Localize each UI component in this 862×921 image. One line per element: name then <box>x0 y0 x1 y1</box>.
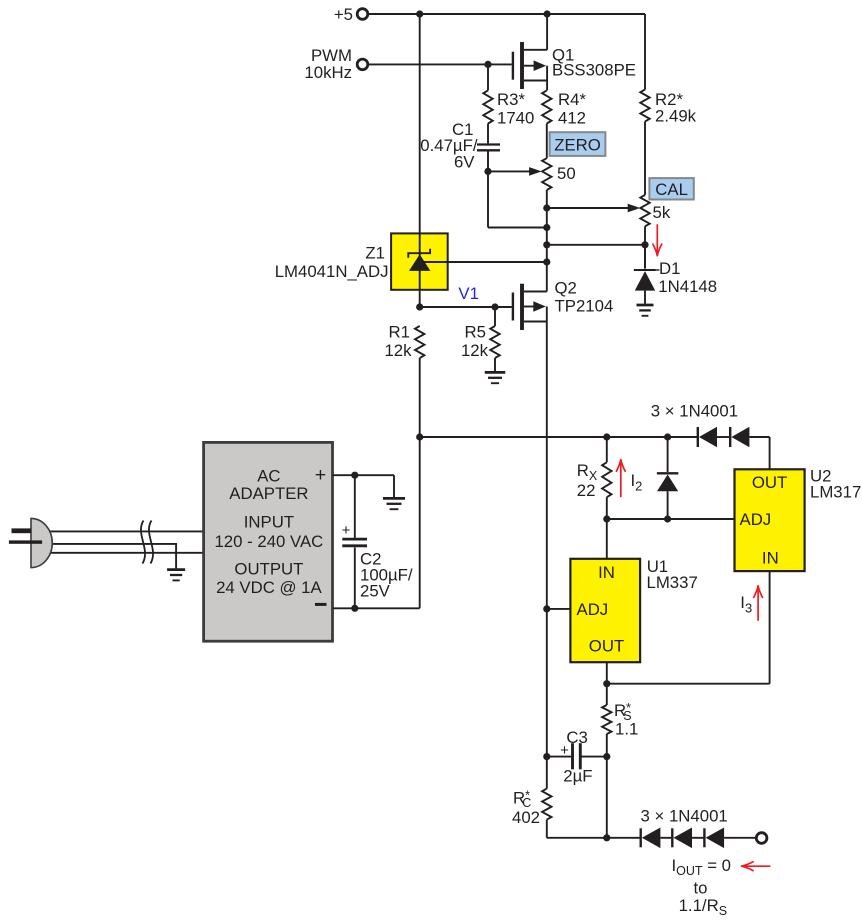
svg-text:TP2104: TP2104 <box>555 297 614 316</box>
svg-text:C3: C3 <box>566 728 587 747</box>
svg-text:I2: I2 <box>631 471 643 494</box>
svg-text:25V: 25V <box>360 581 391 600</box>
svg-text:ZERO: ZERO <box>554 136 601 155</box>
svg-text:IOUT = 0: IOUT = 0 <box>672 856 732 878</box>
svg-text:+5: +5 <box>334 5 353 24</box>
svg-text:+: + <box>560 742 569 759</box>
svg-text:ADJ: ADJ <box>740 510 772 529</box>
svg-text:402: 402 <box>512 808 540 827</box>
svg-text:R4*: R4* <box>558 90 586 109</box>
svg-text:I3: I3 <box>740 593 752 616</box>
svg-text:120 - 240 VAC: 120 - 240 VAC <box>214 532 323 551</box>
svg-text:ADJ: ADJ <box>577 600 609 619</box>
svg-text:RX: RX <box>577 461 598 483</box>
svg-text:+: + <box>342 522 351 539</box>
svg-text:Z1: Z1 <box>365 244 385 263</box>
svg-text:1740: 1740 <box>497 108 534 127</box>
svg-text:10kHz: 10kHz <box>304 63 352 82</box>
svg-text:R1: R1 <box>389 323 410 342</box>
svg-text:2.49k: 2.49k <box>655 107 697 126</box>
svg-text:6V: 6V <box>454 153 475 172</box>
svg-text:5k: 5k <box>653 203 671 222</box>
svg-text:IN: IN <box>598 563 615 582</box>
svg-text:412: 412 <box>558 108 586 127</box>
svg-text:IN: IN <box>762 548 779 567</box>
svg-text:INPUT: INPUT <box>244 512 294 531</box>
svg-text:V1: V1 <box>458 284 479 303</box>
svg-text:1.1: 1.1 <box>615 719 638 738</box>
svg-text:CAL: CAL <box>655 180 688 199</box>
svg-text:LM337: LM337 <box>647 573 698 592</box>
svg-text:3 × 1N4001: 3 × 1N4001 <box>641 806 728 825</box>
svg-text:AC: AC <box>257 466 280 485</box>
svg-text:2µF: 2µF <box>563 767 592 786</box>
svg-text:24 VDC @ 1A: 24 VDC @ 1A <box>216 578 322 597</box>
svg-text:LM317: LM317 <box>810 483 861 502</box>
svg-text:D1: D1 <box>659 259 680 278</box>
svg-text:12k: 12k <box>384 341 412 360</box>
svg-text:+: + <box>315 464 326 486</box>
svg-text:Q2: Q2 <box>555 278 577 297</box>
svg-text:R5: R5 <box>465 323 486 342</box>
svg-text:R3*: R3* <box>497 90 525 109</box>
svg-text:to: to <box>694 879 708 898</box>
svg-text:BSS308PE: BSS308PE <box>552 61 636 80</box>
svg-text:50: 50 <box>557 164 576 183</box>
svg-text:OUT: OUT <box>589 637 624 656</box>
svg-text:1.1/RS: 1.1/RS <box>679 896 727 918</box>
svg-text:3 × 1N4001: 3 × 1N4001 <box>651 401 738 420</box>
svg-text:1N4148: 1N4148 <box>658 277 717 296</box>
svg-text:12k: 12k <box>461 341 489 360</box>
svg-text:ADAPTER: ADAPTER <box>229 484 308 503</box>
svg-text:22: 22 <box>577 481 596 500</box>
svg-text:OUT: OUT <box>752 473 787 492</box>
svg-text:OUTPUT: OUTPUT <box>234 559 303 578</box>
svg-text:LM4041N_ADJ: LM4041N_ADJ <box>275 262 389 281</box>
